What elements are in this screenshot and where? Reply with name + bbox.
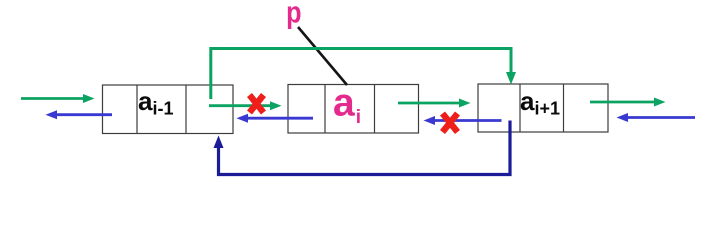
wire: green next arrow a(i-1) to a(i), crossed bbox=[209, 101, 282, 110]
wire: blue prev arrow a(i) to a(i-1) bbox=[237, 114, 314, 123]
node a(i-1) box bbox=[103, 85, 234, 134]
svg-text:ai-1: ai-1 bbox=[138, 86, 173, 119]
wire: blue prev arrow a(i+1) to a(i), crossed bbox=[424, 116, 502, 125]
node a(i+1) box bbox=[478, 84, 608, 132]
node a(i) box bbox=[288, 85, 419, 134]
svg-text:ai+1: ai+1 bbox=[520, 86, 560, 119]
wire: new green next path a(i-1) to a(i+1) bbox=[211, 49, 516, 100]
wire: green next arrow a(i) to a(i+1) bbox=[398, 99, 471, 108]
wire: green arrow into node a(i-1) bbox=[21, 94, 95, 103]
wire: pointer line from p to node a(i) bbox=[298, 27, 347, 85]
red X on prev pointer a(i+1) bbox=[443, 114, 458, 133]
svg-text:ai: ai bbox=[333, 82, 361, 129]
wire: new navy prev path a(i+1) to a(i-1) bbox=[214, 121, 511, 175]
wire: blue arrow into node a(i+1) from right bbox=[617, 113, 696, 122]
red X on next pointer a(i-1) bbox=[250, 95, 264, 113]
svg-text:p: p bbox=[286, 0, 301, 29]
wire: blue prev arrow out of node a(i-1) bbox=[46, 110, 113, 119]
wire: green arrow out of node a(i+1) bbox=[590, 98, 666, 107]
